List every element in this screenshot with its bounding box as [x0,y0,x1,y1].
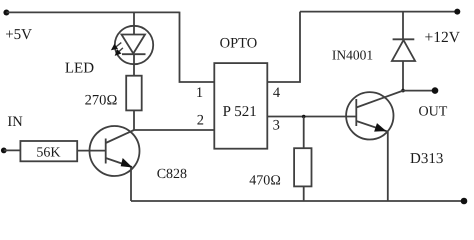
terminal +5V [3,10,9,16]
svg-text:270Ω: 270Ω [85,92,118,108]
svg-text:470Ω: 470Ω [249,174,281,189]
wire rail to diode D1 [402,12,404,40]
junction node OUT [401,89,405,93]
junction node B [302,115,306,119]
svg-text:3: 3 [273,118,280,134]
wire IN to R2 [4,149,21,151]
terminal OUT [432,87,439,94]
diode D1 IN4001 [392,39,415,61]
wire R1 to node A [133,110,135,130]
LED [115,26,153,64]
svg-text:LED: LED [65,60,94,76]
wire opto pin 3 to Q2 base [267,116,356,118]
wire ground rail [131,200,464,202]
svg-text:56K: 56K [36,146,60,161]
svg-text:P 521: P 521 [223,104,257,120]
terminal ground [461,198,468,205]
svg-text:1: 1 [196,85,203,101]
transistor Q1 C828 [90,126,140,176]
resistor R1 270Ω body [126,76,142,111]
transistor Q2 D313 [346,91,403,140]
wire top-left rail [6,11,179,13]
wire node A to opto pin 2 [134,129,214,131]
wire top-right rail [300,11,457,13]
svg-text:+5V: +5V [5,27,32,43]
svg-text:D313: D313 [410,151,443,167]
wire LED to R1 [133,54,135,75]
resistor R3 470Ω body [294,148,311,186]
svg-text:2: 2 [197,112,204,128]
resistor R2 56K body [20,141,77,161]
opto-coupler U1 P521 box [214,63,267,149]
terminal +12V [454,9,460,15]
wire Q2 emitter to ground rail [387,132,389,201]
svg-text:OPTO: OPTO [220,36,258,52]
wire pin1 branch [180,12,215,82]
svg-text:OUT: OUT [419,104,448,119]
wire R2 to Q1 base [77,150,106,152]
svg-text:+12V: +12V [425,29,461,46]
wire opto pin 4 to +12V rail [267,12,300,82]
svg-text:IN4001: IN4001 [332,48,373,63]
wire diode to node OUT [402,61,404,91]
wire Q1 emitter to ground rail [130,167,132,201]
svg-text:C828: C828 [157,167,187,182]
svg-text:4: 4 [273,85,281,101]
wire node B to R3 [303,117,305,149]
terminal IN [1,148,7,154]
wire rail to LED [133,12,135,34]
LED light arrows [112,43,123,56]
wire R3 to ground rail [303,186,305,201]
svg-text:IN: IN [7,114,23,130]
wire node to OUT terminal [403,90,435,92]
